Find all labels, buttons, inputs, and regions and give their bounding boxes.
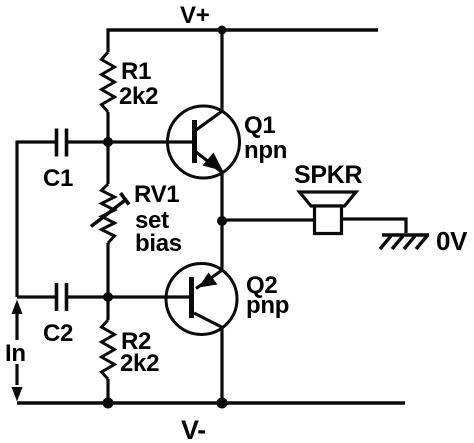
resistor R1	[102, 52, 115, 112]
input port In arrows	[15, 313, 18, 385]
capacitor C1	[57, 129, 67, 157]
svg-text:In: In	[5, 340, 26, 367]
node V+ rail to Q1 collector	[218, 26, 227, 35]
capacitor C2	[57, 283, 67, 311]
node Q2 collector on V- rail	[217, 398, 228, 409]
label V+	[180, 2, 210, 29]
wire speaker to ground	[342, 219, 406, 233]
svg-text:0V: 0V	[436, 226, 468, 256]
wire R1 bottom lead	[106, 112, 109, 142]
wire left input vertical	[15, 141, 18, 298]
label Q1 npn	[244, 112, 287, 164]
label Q2 pnp	[246, 272, 289, 319]
wire Q1 collector lead	[220, 30, 223, 111]
label C1	[43, 165, 73, 192]
wire R2 top lead	[106, 297, 109, 320]
transistor Q1	[168, 106, 240, 178]
wire R2 bottom lead	[106, 379, 109, 403]
wire Q2 emitter lead	[220, 221, 223, 270]
svg-text:2k2: 2k2	[119, 83, 158, 110]
speaker SPKR	[300, 192, 357, 234]
label In	[2, 340, 30, 367]
svg-text:pnp: pnp	[246, 292, 289, 319]
wire input top segment	[17, 140, 55, 143]
svg-text:npn: npn	[244, 137, 287, 164]
svg-text:C2: C2	[43, 320, 73, 347]
wire C1 to Q1 base	[68, 140, 192, 143]
label RV1 set bias	[134, 181, 182, 257]
wire RV1 top lead	[106, 142, 109, 184]
svg-text:Q1: Q1	[244, 112, 275, 139]
label C2	[43, 320, 73, 347]
label 0V	[436, 226, 468, 256]
svg-text:RV1: RV1	[134, 181, 179, 208]
potentiometer RV1	[102, 184, 115, 243]
wire Q2 collector lead	[220, 327, 223, 403]
node output junction	[217, 216, 227, 226]
node R2 on V- rail	[103, 398, 114, 409]
node junction C1/R1/RV1	[103, 137, 113, 147]
svg-text:V-: V-	[181, 415, 206, 443]
wire C2 to Q2 base	[68, 295, 189, 298]
wire Q1 emitter to output node	[220, 173, 223, 221]
label SPKR	[294, 161, 363, 189]
svg-text:bias: bias	[135, 230, 182, 257]
ground 0V	[380, 235, 429, 249]
label R2 value 2k2	[120, 328, 159, 377]
label V-	[181, 415, 206, 443]
svg-text:R1: R1	[121, 58, 151, 85]
svg-text:V+: V+	[180, 2, 210, 29]
wire input bottom segment	[17, 295, 55, 298]
svg-text:C1: C1	[43, 165, 73, 192]
wire V- bottom rail	[17, 401, 405, 404]
transistor Q2	[166, 264, 237, 335]
wire V+ top rail	[107, 28, 379, 31]
wire RV1 bottom lead	[106, 243, 109, 297]
svg-text:2k2: 2k2	[120, 350, 159, 377]
wire R1 top lead	[106, 29, 109, 53]
resistor R2	[102, 320, 115, 379]
svg-text:SPKR: SPKR	[294, 161, 363, 189]
node junction C2/RV1/R2	[103, 292, 113, 302]
wire output to speaker	[222, 218, 314, 221]
RV1 wiper arrow	[91, 193, 129, 227]
label R1 value 2k2	[119, 58, 158, 110]
